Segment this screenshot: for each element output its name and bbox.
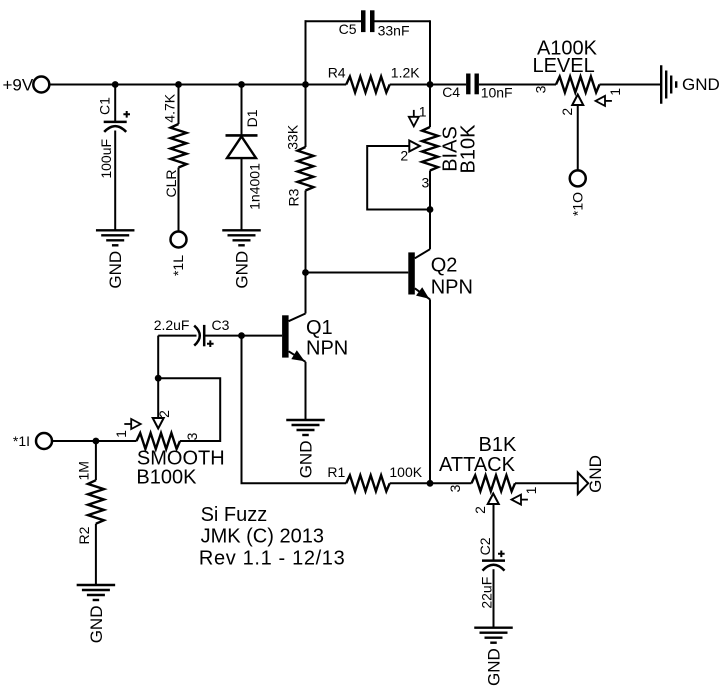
resistor R1 100K bbox=[346, 475, 390, 491]
resistor R2 1M bbox=[88, 480, 104, 524]
svg-text:1n4001: 1n4001 bbox=[247, 163, 263, 210]
wire C1 top bbox=[114, 85, 116, 122]
arrow LEVEL cw bbox=[596, 96, 606, 106]
transistor Q2 emitter lead bbox=[415, 288, 430, 299]
wire C3 corner down bbox=[157, 336, 159, 379]
terminal *1O pad bbox=[570, 170, 586, 186]
wire BIAS wiper loop bbox=[367, 146, 430, 210]
svg-text:*1L: *1L bbox=[170, 255, 186, 276]
transistor Q2 collector lead bbox=[415, 249, 430, 258]
svg-text:3: 3 bbox=[422, 174, 430, 190]
junction SMOOTH loop bbox=[155, 375, 162, 382]
svg-text:D1: D1 bbox=[244, 109, 260, 127]
svg-text:1: 1 bbox=[523, 486, 539, 494]
wire ATTACK wiper bbox=[493, 504, 495, 561]
svg-text:2.2uF: 2.2uF bbox=[154, 317, 190, 333]
svg-text:1: 1 bbox=[113, 430, 129, 438]
svg-text:R2: R2 bbox=[76, 526, 92, 544]
junction rail-R4-C4-BIAS bbox=[427, 81, 434, 88]
svg-text:2: 2 bbox=[400, 148, 408, 164]
junction input-R2 bbox=[93, 438, 100, 445]
ground C1 bbox=[96, 229, 135, 231]
svg-text:4.7K: 4.7K bbox=[161, 93, 177, 122]
arrow BIAS cw bbox=[409, 117, 419, 127]
wire Q1 emitter bbox=[305, 362, 307, 420]
svg-text:3: 3 bbox=[447, 484, 463, 492]
capacitor C5 plates bbox=[361, 10, 366, 32]
transistor Q2 base bar bbox=[408, 252, 415, 294]
wire C2 bottom bbox=[493, 569, 495, 628]
wire C5 right riser bbox=[429, 20, 431, 84]
junction rail-C1 bbox=[112, 81, 119, 88]
svg-text:100K: 100K bbox=[389, 464, 422, 480]
svg-text:C2: C2 bbox=[477, 537, 493, 555]
svg-text:JMK (C) 2013: JMK (C) 2013 bbox=[201, 526, 324, 548]
wire R3 bottom bbox=[305, 191, 307, 273]
wire CLR bottom bbox=[178, 168, 180, 232]
svg-text:GND: GND bbox=[87, 606, 106, 644]
resistor CLR 4.7K bbox=[171, 124, 187, 168]
wire Q2 emitter bbox=[429, 299, 431, 483]
svg-text:LEVEL: LEVEL bbox=[532, 55, 594, 77]
junction C3-Q1base bbox=[238, 332, 245, 339]
svg-text:*1I: *1I bbox=[13, 433, 30, 449]
wire D1 top bbox=[241, 85, 243, 136]
ground D1 bbox=[222, 229, 261, 231]
svg-text:R4: R4 bbox=[328, 65, 346, 81]
junction R1-ATTACK-Q2e bbox=[427, 480, 434, 487]
wiper LEVEL bbox=[572, 95, 583, 106]
wire Q1 base bbox=[242, 335, 283, 337]
potentiometer LEVEL track bbox=[556, 77, 600, 93]
svg-text:10nF: 10nF bbox=[481, 85, 513, 101]
wire C5 top left bbox=[305, 20, 362, 22]
capacitor C3 plates bbox=[194, 326, 200, 346]
capacitor C2 plates bbox=[482, 559, 505, 562]
wire C5 left riser bbox=[305, 20, 307, 84]
wire D1 bottom bbox=[241, 158, 243, 230]
svg-text:Q1: Q1 bbox=[306, 317, 333, 339]
potentiometer SMOOTH track bbox=[137, 433, 181, 449]
wire R3 top bbox=[305, 85, 307, 148]
wire C3 right bbox=[204, 335, 241, 337]
terminal *1L pad bbox=[171, 232, 187, 248]
wire LEVEL wiper bbox=[577, 105, 579, 170]
svg-text:Si Fuzz: Si Fuzz bbox=[201, 504, 268, 526]
svg-text:22uF: 22uF bbox=[479, 577, 495, 609]
svg-text:ATTACK: ATTACK bbox=[439, 454, 516, 476]
svg-text:B100K: B100K bbox=[136, 467, 197, 489]
wire C5 top right bbox=[375, 20, 431, 22]
svg-text:33nF: 33nF bbox=[378, 23, 410, 39]
svg-text:+9V: +9V bbox=[3, 76, 34, 95]
ground C2 bbox=[474, 627, 513, 629]
resistor R4 1.2K bbox=[346, 77, 390, 93]
svg-text:*1O: *1O bbox=[570, 192, 586, 216]
wire SMOOTH wiper bbox=[157, 378, 159, 418]
svg-text:C1: C1 bbox=[96, 97, 112, 115]
junction rail-R3 bbox=[302, 81, 309, 88]
wire R2 bottom bbox=[95, 524, 97, 585]
wiper BIAS bbox=[409, 141, 420, 152]
wire +9V rail bbox=[50, 84, 346, 86]
wire ATTACK to GND bbox=[515, 482, 578, 484]
transistor Q1 emitter lead bbox=[289, 351, 306, 362]
svg-text:Q2: Q2 bbox=[431, 255, 458, 277]
junction BIAS-Q2 bbox=[427, 206, 434, 213]
svg-text:Rev 1.1 - 12/13: Rev 1.1 - 12/13 bbox=[199, 547, 345, 569]
svg-text:100uF: 100uF bbox=[98, 139, 114, 179]
wire Q1base to R1 bbox=[242, 336, 347, 484]
transistor Q1 collector lead bbox=[289, 314, 306, 322]
ground Q1 bbox=[286, 419, 325, 421]
wiper SMOOTH bbox=[153, 418, 164, 429]
svg-text:GND: GND bbox=[106, 251, 125, 289]
potentiometer ATTACK track bbox=[472, 475, 516, 491]
svg-text:2: 2 bbox=[156, 410, 172, 418]
svg-text:B10K: B10K bbox=[458, 124, 480, 174]
terminal *1I pad bbox=[36, 433, 52, 449]
wire R1 to ATTACK bbox=[390, 482, 430, 484]
svg-text:NPN: NPN bbox=[431, 276, 473, 298]
svg-text:C5: C5 bbox=[339, 21, 357, 37]
svg-text:3: 3 bbox=[532, 85, 548, 93]
wire BIAS top bbox=[429, 85, 431, 128]
wire LEVEL to GND bbox=[600, 84, 662, 86]
svg-text:1.2K: 1.2K bbox=[391, 65, 420, 81]
svg-text:GND: GND bbox=[484, 648, 503, 686]
potentiometer BIAS track bbox=[422, 127, 438, 171]
arrow ATTACK cw bbox=[512, 495, 522, 505]
svg-text:C4: C4 bbox=[442, 84, 460, 100]
wire R2 top bbox=[95, 441, 97, 480]
svg-text:GND: GND bbox=[682, 75, 720, 94]
terminal +9V pad bbox=[33, 77, 49, 93]
wire C1 bottom bbox=[114, 131, 116, 231]
svg-text:2: 2 bbox=[472, 506, 488, 514]
svg-text:GND: GND bbox=[232, 251, 251, 289]
diode D1 symbol bbox=[226, 134, 258, 137]
wire input bbox=[53, 440, 137, 442]
transistor Q1 base bar bbox=[282, 315, 289, 357]
wire BIAS bottom bbox=[429, 171, 431, 210]
svg-text:C3: C3 bbox=[212, 317, 230, 333]
svg-text:3: 3 bbox=[184, 432, 200, 440]
svg-text:B1K: B1K bbox=[478, 434, 516, 456]
svg-text:NPN: NPN bbox=[306, 338, 348, 360]
wire Q2 collector bbox=[429, 210, 431, 250]
junction rail-CLR bbox=[175, 81, 182, 88]
svg-text:1M: 1M bbox=[76, 461, 92, 480]
wire Q1 collector bbox=[305, 273, 307, 314]
junction rail-D1 bbox=[238, 81, 245, 88]
wire ATTACK t3 bbox=[430, 482, 472, 484]
wire Q2 base bbox=[306, 272, 409, 274]
wire C4 to LEVEL bbox=[479, 84, 556, 86]
capacitor C1 plates bbox=[104, 121, 127, 124]
svg-text:GND: GND bbox=[296, 441, 315, 479]
capacitor C4 plates bbox=[466, 74, 470, 95]
svg-text:1: 1 bbox=[419, 104, 427, 120]
svg-text:R1: R1 bbox=[327, 464, 345, 480]
wire C3 left bbox=[158, 335, 196, 337]
resistor R3 33K bbox=[298, 147, 314, 191]
arrow SMOOTH cw bbox=[131, 419, 141, 429]
wire R4 to C4 bbox=[390, 84, 466, 86]
ground top right bbox=[660, 65, 662, 104]
svg-text:2: 2 bbox=[559, 108, 575, 116]
svg-text:R3: R3 bbox=[286, 188, 302, 206]
wire CLR top bbox=[178, 85, 180, 125]
junction R3-Q1-Q2base bbox=[302, 269, 309, 276]
ground R2 bbox=[77, 584, 116, 586]
svg-text:GND: GND bbox=[586, 455, 605, 493]
svg-text:CLR: CLR bbox=[163, 169, 179, 197]
svg-text:1: 1 bbox=[607, 88, 623, 96]
ground arrow right bbox=[578, 473, 588, 495]
wire SMOOTH t3 loop bbox=[158, 378, 220, 441]
svg-text:33K: 33K bbox=[285, 124, 301, 150]
wiper ATTACK bbox=[488, 494, 499, 505]
